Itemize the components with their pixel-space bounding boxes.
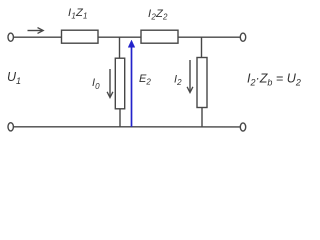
wire shunt magnetizing branch top (119, 37, 121, 58)
svg-text:I2·Zb = U2: I2·Zb = U2 (247, 72, 301, 88)
terminal top-right (240, 33, 245, 41)
svg-text:I2Z2: I2Z2 (148, 8, 168, 22)
impedance Zb burden box (197, 58, 207, 108)
wire magnetizing branch bottom (119, 109, 121, 127)
impedance Zm magnetizing branch box (115, 58, 124, 109)
svg-text:I2: I2 (174, 73, 182, 87)
terminal bottom-right (240, 123, 245, 131)
svg-text:I1Z1: I1Z1 (68, 7, 88, 21)
resistor Z1 (series impedance I1Z1) (62, 30, 99, 43)
wire top from terminal to Z1 (14, 36, 62, 38)
wire bottom return (14, 126, 241, 128)
resistor Z2 (series impedance I2Z2) (141, 30, 178, 43)
wire from Z2 to top-right terminal (178, 36, 240, 38)
svg-text:U1: U1 (7, 70, 21, 86)
wire burden branch top (201, 37, 203, 57)
svg-text:E2: E2 (139, 73, 151, 87)
svg-text:I0: I0 (92, 77, 100, 91)
terminal bottom-left (8, 123, 13, 131)
terminal top-left (8, 33, 13, 41)
arrow I1 current direction (28, 30, 43, 32)
wire between Z1 and Z2 (98, 36, 141, 38)
arrow E2 EMF (blue) (128, 40, 135, 127)
arrow I0 current direction (109, 69, 111, 97)
wire burden branch bottom (201, 108, 203, 127)
arrow I2 current direction (189, 60, 191, 92)
